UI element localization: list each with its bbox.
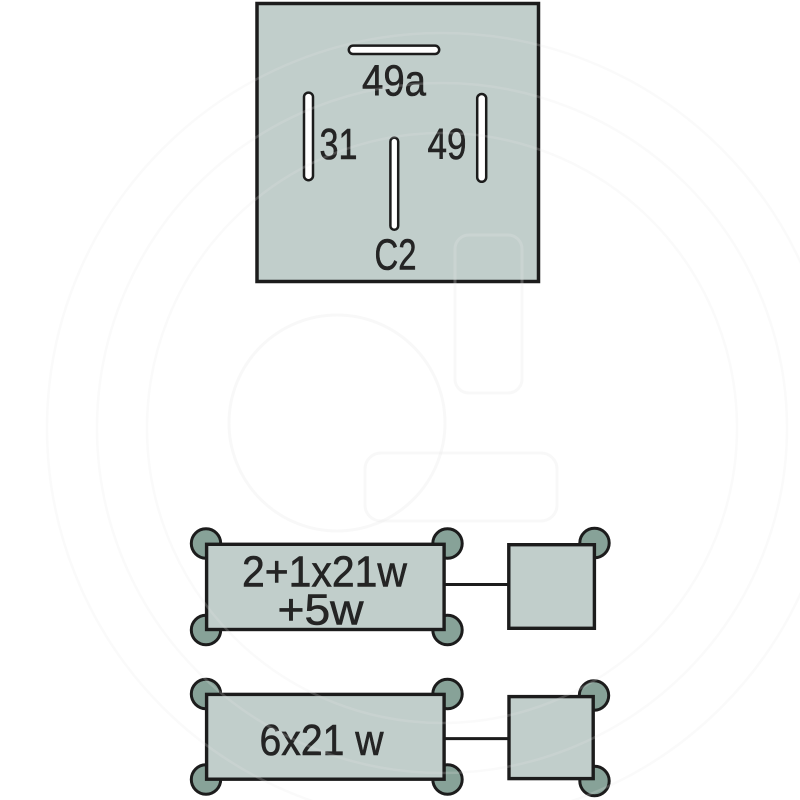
indicator box 2 contact bottom-right — [580, 766, 609, 795]
lamp load block 1 corner contact top-left — [191, 529, 220, 558]
pin slot 49 (right vertical terminal) — [477, 94, 486, 182]
lamp load block 2 corner contact bottom-right — [433, 765, 462, 794]
svg-text:+5w: +5w — [278, 586, 364, 635]
lamp load block 2 corner contact bottom-left — [191, 765, 220, 794]
pin slot 31 (left vertical terminal) — [304, 93, 313, 181]
indicator box 2 contact top-right — [579, 681, 608, 710]
watermark G circle — [229, 235, 557, 531]
wire from block 1 to indicator box 1 — [444, 583, 509, 586]
lamp load block 2 (6x21 w) — [207, 694, 445, 779]
svg-text:49: 49 — [428, 120, 467, 169]
wire from block 2 to indicator box 2 — [444, 737, 510, 740]
svg-text:31: 31 — [320, 120, 358, 169]
lamp load block 2 corner contact top-left — [191, 679, 220, 708]
watermark G tab — [455, 235, 522, 393]
indicator box 2 — [509, 697, 593, 779]
lamp load block 1 corner contact top-right — [433, 529, 462, 558]
pin slot 49a (top horizontal terminal) — [349, 46, 439, 54]
lamp load block 1 (2+1x21w +5w) — [207, 544, 445, 629]
pin slot C2 (centre vertical terminal) — [390, 138, 398, 230]
relay body outline — [257, 4, 539, 282]
svg-text:C2: C2 — [375, 231, 417, 280]
lamp load block 1 corner contact bottom-left — [191, 615, 220, 644]
svg-text:49a: 49a — [362, 57, 426, 106]
indicator box 1 — [509, 545, 595, 629]
lamp load block 1 corner contact bottom-right — [433, 615, 462, 644]
indicator box 1 contact top-right — [580, 528, 609, 557]
watermark G crossbar — [365, 453, 557, 521]
lamp load block 2 corner contact top-right — [433, 679, 462, 708]
svg-text:6x21 w: 6x21 w — [260, 716, 384, 765]
